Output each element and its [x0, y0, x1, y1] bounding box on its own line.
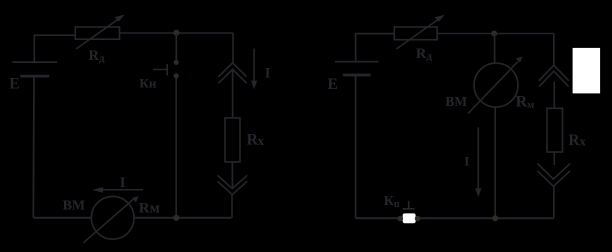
- wire chevron to bottom corner (left): [231, 195, 233, 218]
- node junction dot top (right): [491, 31, 497, 37]
- meter BM circle (left): [91, 196, 134, 239]
- wire left vertical battery to bottom (right): [355, 75, 357, 218]
- svg-text:E: E: [9, 76, 19, 93]
- chevron down symbol (right, double arrow down): [537, 163, 570, 179]
- wire bottom right segment (left): [134, 217, 232, 219]
- svg-text:Rм: Rм: [139, 200, 160, 216]
- switch Kn contact dot upper: [174, 60, 179, 65]
- resistor R2 box Rd (right): [394, 27, 437, 40]
- arrow through Rd (right variable resistor): [396, 18, 440, 49]
- battery E (right) bottom plate: [343, 74, 371, 77]
- wire chevron to Rx (right): [553, 82, 555, 109]
- wire battery top to corner (left): [34, 35, 75, 62]
- wire meter to bottom (right): [494, 107, 496, 218]
- node junction dot bottom (left): [173, 215, 179, 221]
- switch Kp contact dot left: [398, 216, 404, 222]
- wire chevron to Rx (left): [232, 69, 234, 118]
- battery E (right) top plate: [335, 61, 379, 63]
- switch Kp contact dot right: [415, 216, 421, 222]
- svg-text:E: E: [328, 76, 338, 93]
- arrow through Rd (left variable resistor): [76, 18, 120, 49]
- battery E (left) bottom plate: [21, 75, 50, 78]
- current arrow I (left right branch, pointing down): [253, 49, 255, 82]
- wire left vertical battery to bottom (left): [32, 76, 35, 218]
- wire bottom left segment (left): [34, 217, 92, 219]
- wire chevron to bottom corner (right): [553, 187, 555, 219]
- wire Rx to chevron down (right): [553, 152, 555, 165]
- switch Kp white contact block: [403, 213, 416, 223]
- arrow through meter (right): [468, 62, 518, 114]
- current arrow I (left bottom, pointing left): [100, 189, 143, 191]
- svg-text:ВМ: ВМ: [445, 94, 467, 109]
- node junction dot bottom (right): [492, 215, 498, 221]
- battery E (left) top plate: [13, 61, 58, 63]
- current arrow I (right, pointing down): [477, 127, 479, 190]
- svg-text:Кн: Кн: [139, 75, 156, 90]
- switch Kn contact dot lower: [174, 73, 179, 78]
- wire switch lower to bottom (left): [175, 78, 177, 218]
- chevron up symbol (left, double arrow up): [218, 63, 247, 77]
- svg-text:Rx: Rx: [247, 132, 265, 149]
- resistor R1 box Rd (left): [75, 27, 119, 39]
- wire Rx to chevron down (left): [231, 162, 233, 188]
- white rectangle patch (top right): [573, 48, 601, 94]
- wire top right segment (left): [120, 32, 234, 34]
- svg-text:ВМ: ВМ: [63, 198, 86, 213]
- wire battery top to corner (right): [356, 34, 395, 62]
- chevron down symbol (left, double arrow down): [218, 175, 248, 188]
- resistor Rx box (left): [225, 118, 240, 162]
- wire right branch top (left): [232, 33, 234, 63]
- svg-text:I: I: [120, 175, 126, 191]
- switch Kn actuator: [153, 64, 167, 76]
- arrow through meter (left): [84, 199, 135, 243]
- wire top right segment (right): [437, 33, 554, 35]
- resistor Rx box (right): [547, 108, 563, 152]
- wire junction to meter (right): [494, 34, 496, 64]
- wire bottom (right): [356, 217, 554, 219]
- node junction dot top (left): [173, 30, 179, 36]
- meter BM circle (right): [474, 63, 518, 107]
- wire switch upper (left): [175, 33, 177, 60]
- svg-text:I: I: [464, 153, 469, 168]
- chevron up symbol (right, double arrow up): [539, 65, 569, 81]
- switch Kp actuator: [403, 201, 415, 209]
- svg-text:Rx: Rx: [568, 132, 586, 149]
- svg-text:I: I: [265, 65, 271, 81]
- wire right branch top (right): [553, 34, 555, 66]
